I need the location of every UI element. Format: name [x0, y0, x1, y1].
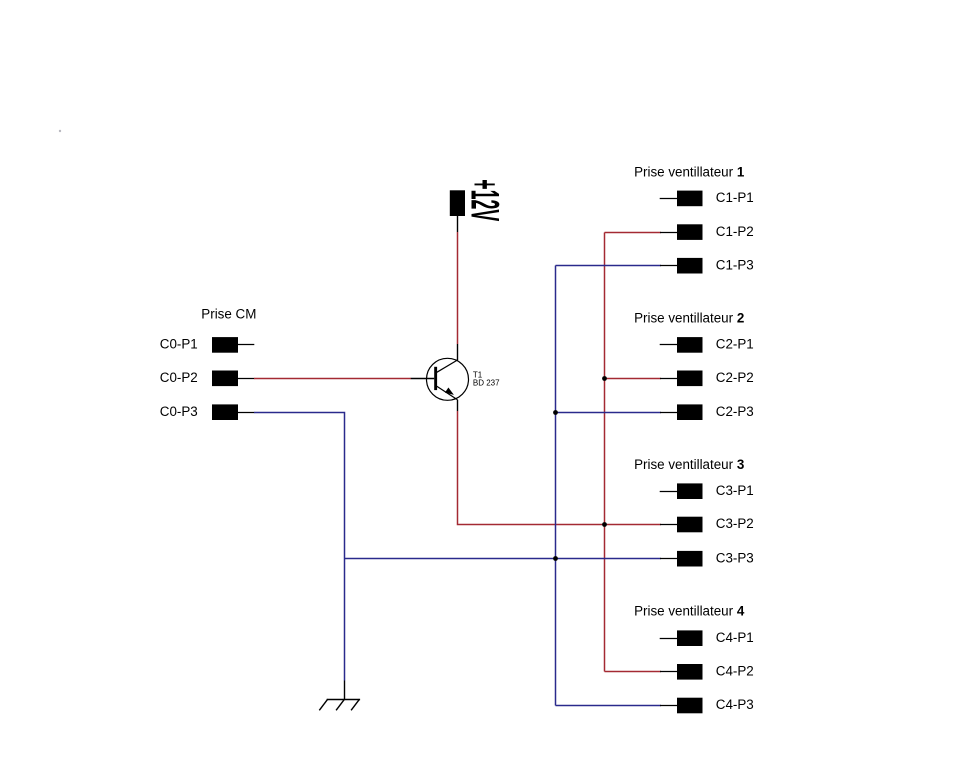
wire: +12V to collector (red) [457, 232, 459, 344]
svg-text:Prise ventillateur 1: Prise ventillateur 1 [634, 164, 745, 179]
connector pin C0-P1 [212, 337, 238, 353]
wire: C0-P1 stub [238, 344, 254, 346]
wire: blue branch to C4-P3 [556, 705, 662, 707]
svg-text:Prise CM: Prise CM [201, 307, 256, 322]
wire: emitter down and right to C3-P2 (red) [458, 411, 662, 525]
connector pin C0-P2 [212, 371, 238, 387]
wire: blue branch to C2-P3 [556, 412, 662, 414]
wire: emitter pin stub [457, 400, 459, 411]
wire: C2-P2 stub [660, 378, 677, 380]
wire: blue from ground vertical to C3-P3 [345, 558, 662, 560]
wire: red branch to C2-P2 [605, 378, 662, 380]
connector pin C1-P1 [677, 191, 703, 207]
wire: C3-P1 stub [660, 491, 678, 493]
wire: C0-P3 to ground vertical (blue) [254, 413, 345, 681]
svg-text:C1-P1: C1-P1 [716, 190, 754, 205]
svg-text:C4-P2: C4-P2 [716, 664, 754, 679]
connector pin C1-P3 [677, 258, 703, 274]
connector pin C4-P3 [677, 698, 703, 714]
svg-text:Prise ventillateur 3: Prise ventillateur 3 [634, 457, 744, 472]
svg-text:C3-P1: C3-P1 [716, 483, 754, 498]
svg-text:C3-P3: C3-P3 [716, 550, 754, 565]
wire: C4-P2 stub [660, 671, 677, 673]
connector pin C0-P3 [212, 404, 238, 420]
wire: C0-P2 stub [238, 378, 254, 380]
wire: ground pin stub [344, 681, 346, 700]
wire: C2-P1 stub [660, 344, 678, 346]
svg-text:Prise ventillateur 2: Prise ventillateur 2 [634, 311, 744, 326]
wire: red bus vertical x=604 [604, 233, 606, 672]
svg-text:C3-P2: C3-P2 [716, 516, 754, 531]
wire: C3-P3 stub [660, 558, 677, 560]
node junction red C3-P2 [602, 522, 607, 527]
svg-text:C0-P3: C0-P3 [160, 404, 198, 419]
svg-text:C1-P3: C1-P3 [716, 257, 754, 272]
wire: C4-P3 stub [660, 705, 677, 707]
connector pin C1-P2 [677, 224, 703, 240]
connector pin C4-P2 [677, 664, 703, 680]
connector pin C2-P1 [677, 337, 703, 353]
wire: C1-P3 stub [660, 265, 677, 267]
connector pin C2-P3 [677, 404, 703, 420]
power symbol +12V [450, 190, 465, 216]
connector pin C2-P2 [677, 371, 703, 387]
wire: +12V pin stub [457, 216, 459, 232]
node junction red C2-P2 [602, 376, 607, 381]
wire: C4-P1 stub [660, 638, 678, 640]
speck artifact [59, 130, 61, 132]
svg-text:+12V: +12V [462, 179, 507, 221]
node junction blue C3-P3 [553, 556, 558, 561]
svg-text:C2-P2: C2-P2 [716, 370, 754, 385]
connector pin C3-P1 [677, 483, 703, 499]
connector pin C3-P3 [677, 551, 703, 567]
svg-text:C1-P2: C1-P2 [716, 224, 754, 239]
wire: red branch to C4-P2 [605, 671, 662, 673]
svg-text:C0-P1: C0-P1 [160, 337, 198, 352]
svg-text:C4-P1: C4-P1 [716, 630, 754, 645]
svg-text:C0-P2: C0-P2 [160, 370, 198, 385]
ground chassis symbol [319, 699, 360, 710]
wire: blue bus vertical x=555 [555, 266, 557, 706]
wire: C1-P2 stub [660, 232, 677, 234]
svg-text:C2-P3: C2-P3 [716, 404, 754, 419]
wire: blue branch to C1-P3 [556, 265, 662, 267]
wire: C1-P1 stub [660, 198, 678, 200]
wire: C0-P3 stub [238, 412, 254, 414]
svg-text:C4-P3: C4-P3 [716, 697, 754, 712]
node junction blue C2-P3 [553, 410, 558, 415]
wire: C2-P3 stub [660, 412, 677, 414]
wire: red branch to C1-P2 [605, 232, 662, 234]
wire: base pin stub [411, 378, 434, 380]
connector pin C4-P1 [677, 630, 703, 646]
transistor T1 BD 237 [427, 358, 469, 400]
svg-text:BD 237: BD 237 [473, 379, 500, 388]
svg-text:C2-P1: C2-P1 [716, 337, 754, 352]
wire: C3-P2 stub [660, 524, 677, 526]
wire: collector pin stub [457, 344, 459, 361]
wire: C0-P2 to base (red) [254, 378, 411, 380]
svg-text:Prise ventillateur 4: Prise ventillateur 4 [634, 604, 745, 619]
connector pin C3-P2 [677, 517, 703, 533]
